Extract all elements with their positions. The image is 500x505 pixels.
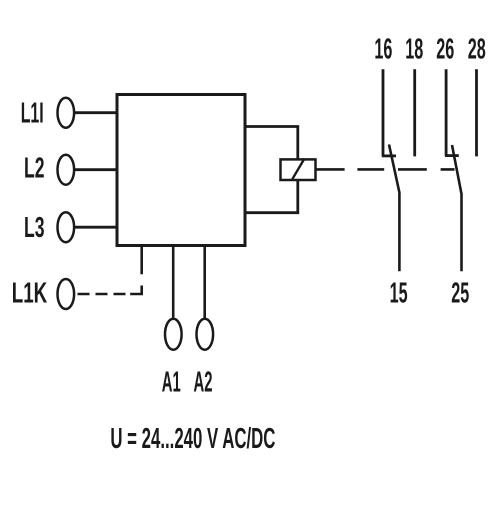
contact lever 25 xyxy=(452,145,462,271)
contact seat 16 xyxy=(382,154,396,157)
wire L3 to box xyxy=(75,226,118,229)
svg-text:A2: A2 xyxy=(194,367,213,399)
svg-text:25: 25 xyxy=(451,278,469,310)
wire box to coil top xyxy=(245,127,298,161)
terminal L1K xyxy=(58,279,75,309)
terminal L3 xyxy=(58,212,75,242)
svg-text:A1: A1 xyxy=(162,367,181,399)
svg-text:L2: L2 xyxy=(24,153,45,185)
wire L2 to box xyxy=(75,168,118,171)
svg-text:L1I: L1I xyxy=(21,98,44,130)
wire terminal 16 xyxy=(382,69,385,156)
wire L1I to box xyxy=(75,111,118,114)
device box U1 xyxy=(117,95,245,246)
svg-text:18: 18 xyxy=(405,33,423,65)
wire terminal 18 xyxy=(413,69,416,156)
terminal A2 xyxy=(197,319,214,350)
relay coil K1 xyxy=(281,159,316,180)
terminal A1 xyxy=(165,319,182,350)
svg-text:L1K: L1K xyxy=(12,278,48,310)
svg-text:L3: L3 xyxy=(24,212,45,244)
dashed wire L1K to box xyxy=(78,246,142,295)
wire coil output xyxy=(316,168,345,171)
contact seat 26 xyxy=(445,154,459,157)
svg-text:28: 28 xyxy=(468,33,486,65)
svg-text:16: 16 xyxy=(374,33,392,65)
wire terminal 28 xyxy=(475,69,478,156)
terminal L2 xyxy=(58,155,75,185)
wire terminal 26 xyxy=(445,69,448,155)
wire A2 xyxy=(203,246,206,318)
wire box to coil bottom xyxy=(245,179,298,213)
terminal L1I xyxy=(58,98,75,128)
svg-text:U = 24...240 V AC/DC: U = 24...240 V AC/DC xyxy=(110,423,275,455)
coil diagonal mark xyxy=(292,160,303,179)
svg-text:26: 26 xyxy=(436,33,454,65)
contact lever 15 xyxy=(389,145,399,272)
svg-text:15: 15 xyxy=(390,278,408,310)
mechanical link dashes xyxy=(357,168,454,171)
wire A1 xyxy=(172,246,175,318)
